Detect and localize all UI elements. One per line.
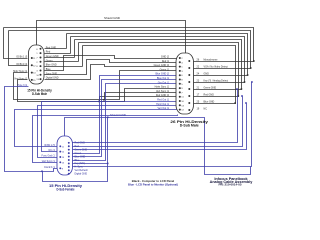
wire J3 right row 8 to J2 tap via far right [73, 81, 253, 166]
svg-text:Horiz Out (1: Horiz Out (1 [156, 103, 170, 106]
svg-text:Red (1: Red (1 [162, 60, 170, 63]
svg-text:ID Bit 0 (4: ID Bit 0 (4 [17, 63, 28, 66]
svg-text:Red GND: Red GND [204, 93, 215, 96]
svg-text:D-Sub Male: D-Sub Male [32, 92, 47, 96]
wire J1 right row8 to J2 left pin row 3 [45, 65, 177, 80]
svg-text:Sync GND: Sync GND [46, 72, 58, 75]
svg-text:Red Out (1: Red Out (1 [157, 99, 169, 102]
labels J1 left side [13, 56, 28, 88]
svg-text:Blue GND: Blue GND [204, 100, 215, 103]
svg-text:Vert Sync (1: Vert Sync (1 [156, 90, 170, 93]
wire J1 left row4 via midline to J2 left pin row 8 [18, 80, 177, 102]
svg-text:GND: GND [204, 72, 210, 75]
wire J1 type3 pin via left edge to J3 left row5 and under-connector route [5, 87, 109, 182]
wire J3 left row3 to J2 left pin 12 [38, 106, 177, 158]
svg-text:21: 21 [197, 86, 200, 89]
svg-text:PN: 210-0014-05: PN: 210-0014-05 [219, 183, 243, 187]
wires J3 right rows 4-6 to J2 left blue pins 5-7 [73, 76, 177, 161]
wire J2 left row9 tail to midline junction [103, 93, 176, 101]
wire J1 left row2 to bus line 2 [9, 31, 28, 66]
connector J2 pins and pin numbers [179, 57, 191, 112]
wire J1 left row1 to bus line 1 [4, 28, 28, 59]
wire J1 right row7 to J2 left pin row 2 [45, 60, 177, 75]
svg-text:Blue GND (2: Blue GND (2 [155, 73, 169, 76]
wire J3 right row7 tap stub [73, 163, 108, 165]
labels J3 left side [42, 144, 56, 169]
connector J1 pins and pin numbers [31, 48, 42, 82]
svg-text:Vert Sync (1: Vert Sync (1 [14, 77, 28, 80]
wire shield GND net J1 shell to J2 shell [37, 21, 186, 54]
svg-text:NC: NC [204, 107, 208, 110]
wire J3 shell shield via middle to bottom right U [65, 118, 251, 175]
svg-text:Digital GND: Digital GND [46, 77, 59, 80]
wires top bus lines 1-7 to J2 right pins [4, 28, 255, 104]
wire J3 left row1 to J2 left pin 13 [15, 110, 177, 147]
svg-text:Grn Out (1: Grn Out (1 [158, 81, 170, 84]
svg-text:Blue: Blue [46, 68, 51, 71]
labels J1 right side [46, 46, 59, 79]
svg-text:Red GND (2: Red GND (2 [156, 94, 170, 97]
svg-text:26: 26 [197, 58, 200, 61]
wire J2 left row10 tail to midline junction [98, 97, 176, 103]
labels J2 left side [154, 56, 170, 111]
svg-text:GND (2: GND (2 [161, 56, 170, 59]
svg-text:ID Bit 1 (5: ID Bit 1 (5 [17, 56, 28, 59]
svg-text:Green GND: Green GND [46, 55, 59, 58]
svg-text:D-Sub Male: D-Sub Male [180, 124, 199, 128]
svg-text:Green GND: Green GND [204, 86, 217, 89]
connector J3 pins and pin numbers [59, 142, 69, 175]
svg-text:Blue - LCD Panel to Monitor (O: Blue - LCD Panel to Monitor (Optional) [128, 182, 178, 186]
wire J3 left row4 digital GND to J2 shell [33, 115, 178, 163]
svg-text:Green (1: Green (1 [160, 68, 170, 71]
svg-text:Green GND (2: Green GND (2 [154, 64, 170, 67]
connector J1 15-pin hi-density D-sub male body [29, 45, 45, 84]
svg-text:VGA / No Video Detect: VGA / No Video Detect [204, 65, 229, 68]
svg-text:Digital GND: Digital GND [75, 173, 88, 176]
svg-text:Red: Red [46, 51, 51, 54]
svg-text:19: 19 [197, 107, 200, 110]
wire J3 left row2 to J2 left pin 11 [42, 102, 177, 152]
connector J3 15-pin hi-density D-sub female body [57, 136, 73, 175]
svg-text:23: 23 [197, 79, 200, 82]
svg-text:Key (?) / Analog Detect: Key (?) / Analog Detect [204, 79, 229, 82]
svg-text:Blue Out (1: Blue Out (1 [157, 77, 170, 80]
wires J3 right rows 1-3 to J2 taps via right edge [73, 88, 247, 149]
svg-text:Func Gnd (1: Func Gnd (1 [42, 155, 56, 158]
wire J1 left row3 via midline to J2 left pin row 4 [14, 71, 177, 100]
svg-text:Monochrome: Monochrome [204, 58, 219, 61]
svg-text:Horiz Sync (1: Horiz Sync (1 [155, 86, 170, 89]
svg-text:Vert Sync (1: Vert Sync (1 [42, 160, 56, 163]
labels J3 right side [75, 142, 89, 176]
svg-text:Red GND: Red GND [46, 46, 57, 49]
labels J2 right side [197, 58, 229, 110]
connector J2 26-pin hi-density D-sub male body [176, 53, 194, 114]
svg-text:25: 25 [197, 100, 200, 103]
svg-text:Green: Green [46, 59, 53, 62]
svg-text:ID Bit 1 (5: ID Bit 1 (5 [44, 144, 55, 147]
svg-text:NC (4: NC (4 [49, 149, 56, 152]
svg-text:Horiz Sync (1: Horiz Sync (1 [13, 70, 28, 73]
svg-text:24: 24 [197, 72, 200, 75]
wires J1 right rows 1-5 risers to bus lines 3-7 [45, 34, 83, 67]
svg-text:22: 22 [197, 65, 200, 68]
wire J1 right row6 to J2 left pin row 1 [45, 56, 177, 71]
svg-text:17: 17 [197, 93, 200, 96]
svg-text:Clock 6 (1: Clock 6 (1 [44, 166, 55, 169]
svg-text:D-Sub Female: D-Sub Female [57, 188, 75, 192]
svg-text:Blue GND: Blue GND [46, 64, 57, 67]
svg-text:Vert Out (1: Vert Out (1 [157, 107, 169, 110]
svg-text:Shield GND: Shield GND [104, 16, 120, 20]
